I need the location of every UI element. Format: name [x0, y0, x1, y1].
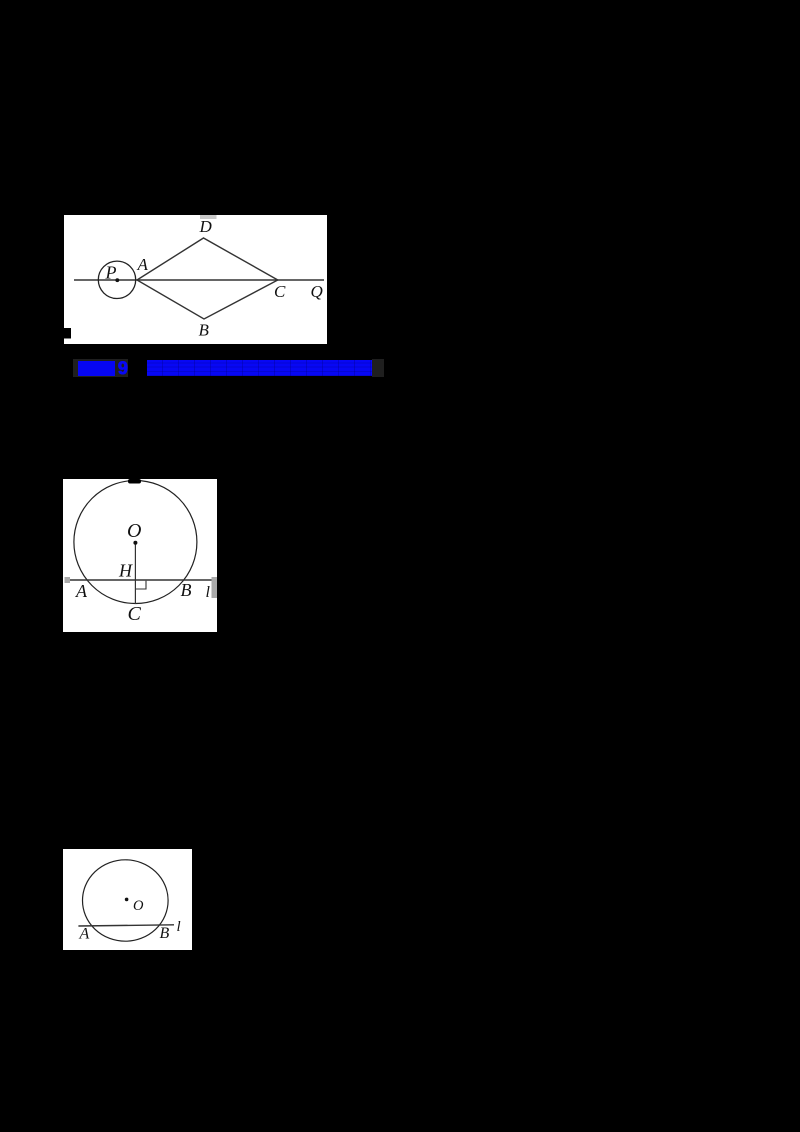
svg-text:O: O — [127, 520, 141, 542]
center dot O — [133, 541, 137, 545]
svg-text:H: H — [118, 561, 133, 581]
blue digit 9 — [118, 358, 128, 379]
svg-text:A: A — [79, 926, 90, 943]
svg-text:C: C — [274, 282, 286, 301]
black notch bottom-left — [64, 328, 71, 339]
gray bar above D — [200, 215, 217, 219]
circle O — [74, 481, 197, 604]
circle P — [98, 261, 135, 298]
svg-text:C: C — [128, 603, 142, 625]
rhombus ABCD — [137, 238, 278, 319]
secant line l — [78, 925, 174, 926]
line PQ — [74, 279, 324, 281]
svg-text:B: B — [199, 321, 210, 340]
svg-text:P: P — [105, 263, 117, 283]
right-angle mark at H — [135, 581, 146, 589]
gray handle left — [65, 577, 71, 583]
center dot P — [115, 278, 119, 282]
blue heading backdrop right — [372, 359, 384, 377]
gray handle right — [212, 577, 218, 598]
svg-text:D: D — [199, 217, 213, 236]
figure 1 panel (rhombus ABCD with circle P) — [64, 215, 327, 344]
svg-text:B: B — [181, 580, 192, 600]
blue solid block (heading badge) — [78, 361, 116, 377]
blue heading text blocks (bold CJK text simulated) — [147, 360, 372, 376]
center dot O — [125, 898, 129, 902]
svg-text:l: l — [177, 919, 181, 935]
svg-text:O: O — [133, 898, 144, 914]
svg-text:l: l — [206, 584, 211, 601]
svg-text:Q: Q — [311, 282, 323, 301]
figure 3 panel (circle O with secant AB on line l) — [63, 849, 192, 950]
blue heading backdrop left — [73, 359, 128, 377]
radius segment OC — [134, 543, 136, 604]
chord line l — [66, 579, 213, 581]
svg-text:A: A — [75, 581, 88, 601]
svg-text:B: B — [160, 925, 170, 942]
black handle top — [128, 479, 141, 484]
figure 2 panel (circle O, chord AB on line l, OH perpendicular, C) — [63, 479, 217, 632]
circle O — [83, 860, 169, 941]
svg-text:A: A — [137, 255, 149, 274]
